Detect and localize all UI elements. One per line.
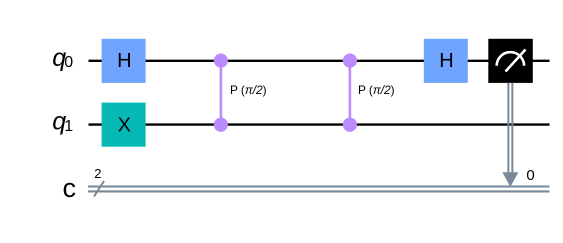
gate CP2 control dot q0 [343, 54, 357, 68]
svg-text:c: c [63, 173, 77, 203]
svg-text:0: 0 [64, 54, 73, 71]
gate CP2 (controlled-phase) vertical line [349, 61, 352, 125]
gate CP1 (controlled-phase) vertical line [220, 61, 223, 125]
classical wire c (double line) [88, 187, 550, 192]
wire q0 [89, 60, 550, 62]
svg-text:P (π/2): P (π/2) [230, 83, 267, 97]
wire q1 [89, 123, 550, 125]
measurement double line to classical wire [508, 83, 512, 173]
classical register size slash [94, 181, 104, 197]
svg-text:0: 0 [526, 167, 534, 184]
svg-text:2: 2 [94, 166, 101, 181]
measurement arrowhead on classical wire [502, 172, 518, 187]
gate CP1 control dot q1 [214, 118, 228, 132]
gate H1 (Hadamard on q0) [102, 39, 146, 83]
measurement M (on q0) [488, 39, 533, 83]
gate X (Pauli-X on q1) [102, 103, 146, 147]
svg-text:1: 1 [64, 118, 73, 135]
node q0 label [52, 44, 73, 72]
gate H2 (Hadamard on q0) [424, 39, 468, 83]
svg-text:P (π/2): P (π/2) [358, 83, 395, 97]
gate CP1 control dot q0 [214, 54, 228, 68]
gate CP2 control dot q1 [343, 118, 357, 132]
svg-text:X: X [118, 115, 131, 137]
svg-text:H: H [439, 50, 453, 72]
svg-text:H: H [117, 50, 131, 72]
node q1 label [52, 108, 73, 136]
